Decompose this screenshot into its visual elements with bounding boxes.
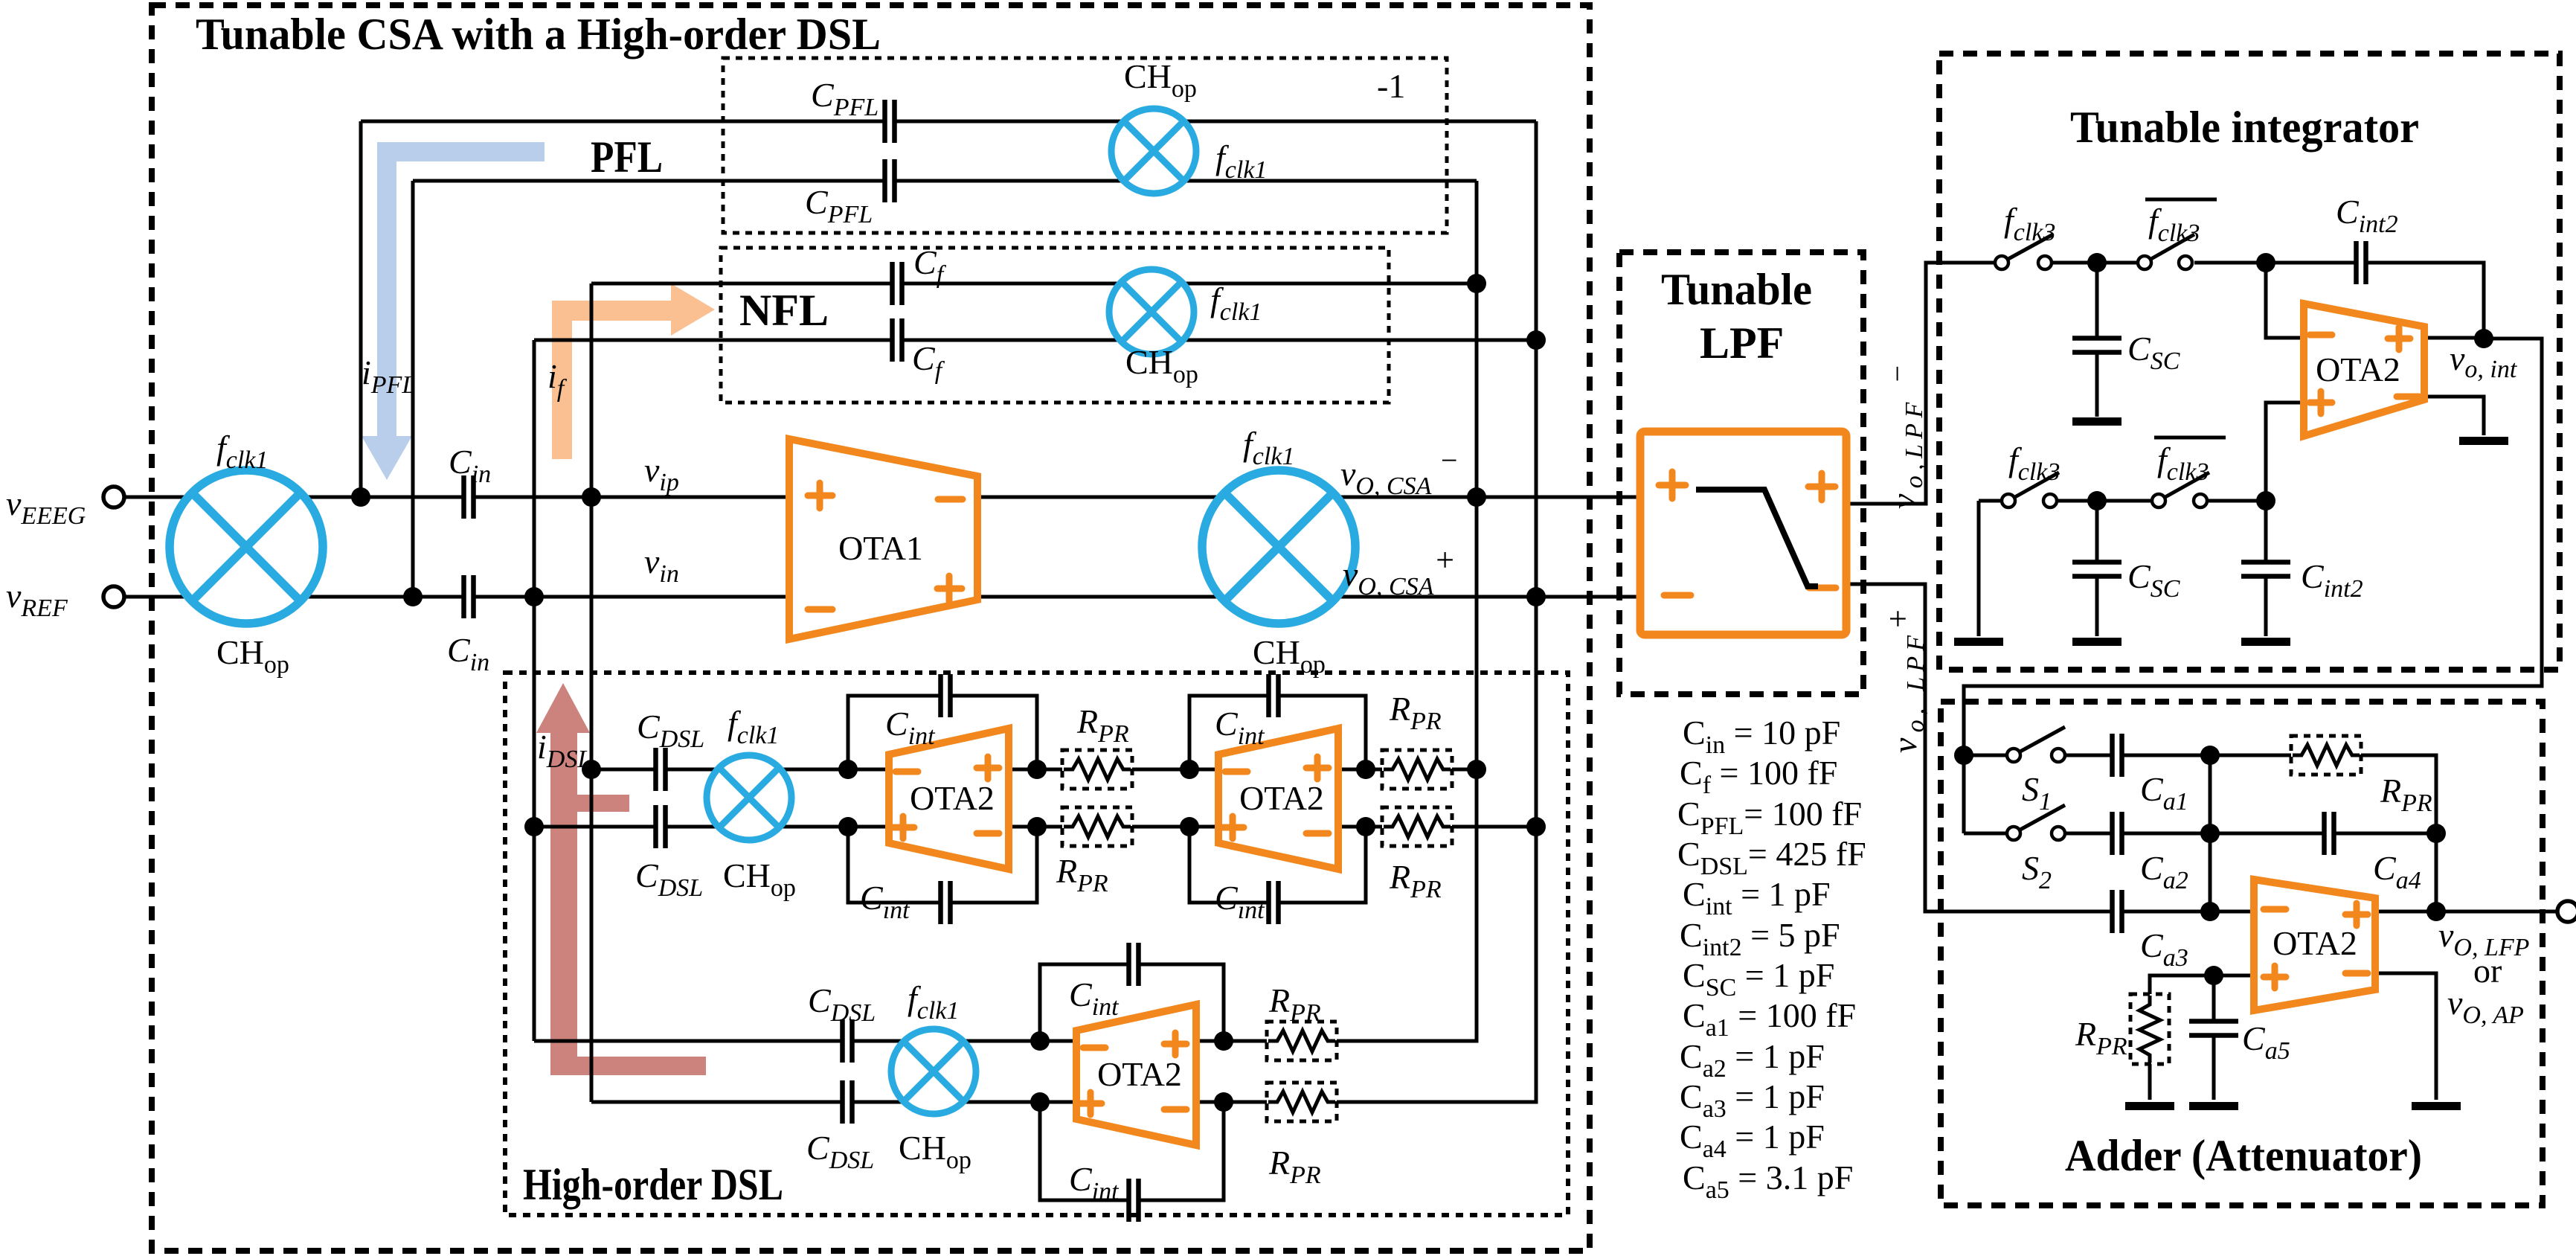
op-amp OTA2 adder bbox=[2254, 879, 2375, 1010]
ground: rail B left bbox=[1954, 638, 2003, 646]
svg-text:OTA2: OTA2 bbox=[2316, 350, 2400, 388]
capacitor Ca1 bbox=[2112, 734, 2122, 777]
chopper CHop DSL stage3 (fclk1) bbox=[891, 1029, 976, 1114]
dashed box RPR stage3 row3b bbox=[1267, 1083, 1337, 1121]
capacitor Ca2 bbox=[2112, 812, 2122, 855]
dashed box: Tunable LPF bbox=[1619, 252, 1863, 694]
wire: integrator OTA2 top input bbox=[2266, 263, 2304, 338]
wire: adder row2 bbox=[1964, 832, 2436, 836]
terminal vEEEG bbox=[103, 487, 124, 507]
capacitor CDSL row3b bbox=[842, 1080, 852, 1124]
junction dots on DSL row3 bbox=[1030, 1031, 1050, 1051]
wire: adder OTA2 minus output to ground bbox=[2375, 973, 2436, 1100]
Tunable LPF orange block bbox=[1640, 432, 1846, 635]
svg-text:High-order DSL: High-order DSL bbox=[523, 1160, 783, 1209]
iDSL current arrow (brick red) bbox=[536, 683, 706, 1075]
wire: vertical from vip node up to PFL top wire bbox=[359, 121, 363, 497]
label fclk3bar rail B bbox=[2154, 438, 2226, 486]
dashed box RPR stage1 row2 bbox=[1062, 807, 1132, 846]
dashed box RPR adder vertical bbox=[2130, 994, 2169, 1064]
ground: CSC bottom bbox=[2072, 638, 2121, 646]
resistor RPR stage1 row2 bbox=[1062, 815, 1132, 839]
wire: adder row1 after RPR to feedback corner bbox=[2361, 755, 2436, 911]
ground: RPR adder bbox=[2125, 1102, 2174, 1110]
dashed box RPR stage2 row1 bbox=[1382, 750, 1452, 789]
resistor RPR stage3 row3b bbox=[1267, 1090, 1337, 1114]
wire: PFL bottom branch bbox=[413, 179, 1477, 183]
svg-text:-1: -1 bbox=[1377, 67, 1405, 105]
wire: Cint loop stage3 top bbox=[1040, 964, 1224, 1041]
ground: Cint2 bottom bbox=[2241, 638, 2290, 646]
junction dots on DSL row2 bbox=[524, 817, 544, 836]
svg-text:Tunable: Tunable bbox=[1661, 265, 1812, 314]
svg-text:or: or bbox=[2473, 952, 2502, 990]
wire: integrator OTA2 bottom input bbox=[2266, 403, 2304, 501]
wire: vREF / vin net (bottom main rail) bbox=[124, 595, 1640, 599]
dashed box: High-order DSL bbox=[505, 673, 1568, 1215]
wire: integrator OTA2 bottom output to ground bbox=[2424, 397, 2484, 435]
wire: PFL top branch bbox=[361, 120, 1536, 124]
svg-text:OTA2: OTA2 bbox=[1097, 1055, 1182, 1093]
op-amp OTA2 DSL stage1 bbox=[889, 728, 1009, 869]
wire: DSL row3b bbox=[591, 1100, 1267, 1104]
dashed box RPR stage2 row2 bbox=[1382, 807, 1452, 846]
chopper CHop input (fclk1) bbox=[170, 470, 323, 624]
capacitor Cint stage1 bottom bbox=[940, 881, 951, 924]
wire: DSL row2 bbox=[534, 825, 1536, 829]
switch S2 bbox=[2007, 805, 2065, 843]
wire: integrator OTA2 output to vo,int node bbox=[2424, 336, 2484, 340]
wire: vertical NFL-bottom to vin to DSL row2 to DSL row3a bbox=[533, 340, 536, 1041]
capacitor Cf top bbox=[892, 262, 902, 305]
capacitor CDSL row2 bbox=[655, 805, 666, 848]
if current arrow (light orange) bbox=[552, 283, 715, 459]
chopper CHop NFL (fclk1) bbox=[1109, 269, 1194, 354]
svg-text:OTA2: OTA2 bbox=[1239, 779, 1324, 817]
resistor RPR stage2 row2 bbox=[1382, 815, 1452, 839]
switch S1 bbox=[2007, 727, 2065, 765]
wire: Cint loop stage3 bottom bbox=[1040, 1102, 1224, 1200]
wire: DSL row1 bbox=[591, 768, 1477, 772]
dashed box: Adder (Attenuator) bbox=[1941, 702, 2543, 1205]
capacitor Cint stage3 top bbox=[1128, 943, 1139, 986]
svg-text:NFL: NFL bbox=[739, 286, 829, 335]
wire: adder OTA2 plus input branch bbox=[2150, 975, 2254, 1100]
wire: LPF top output to integrator rail A bbox=[1846, 263, 2484, 504]
dashed box RPR stage1 row1 bbox=[1062, 750, 1132, 789]
terminal output vO,LFP bbox=[2557, 901, 2576, 922]
wire: NFL bottom branch bbox=[534, 339, 1536, 342]
svg-text:Tunable CSA with a High-order: Tunable CSA with a High-order DSL bbox=[196, 10, 881, 59]
dashed box RPR stage3 row3a bbox=[1267, 1022, 1337, 1060]
capacitor Cint2 bottom bbox=[2241, 562, 2290, 577]
svg-text:Adder (Attenuator): Adder (Attenuator) bbox=[2065, 1131, 2422, 1180]
op-amp OTA2 DSL stage3 bbox=[1076, 1005, 1196, 1145]
junction dots on vip net bbox=[351, 487, 370, 507]
iPFL current arrow (light blue) bbox=[362, 142, 545, 480]
op-amp OTA2 DSL stage2 bbox=[1218, 728, 1338, 869]
svg-text:OTA2: OTA2 bbox=[910, 779, 995, 817]
value list Cin..Ca5 bbox=[1677, 714, 1866, 1204]
capacitor Ca4 bbox=[2324, 812, 2334, 855]
resistor RPR stage1 row1 bbox=[1062, 757, 1132, 781]
chopper CHop DSL stage1 (fclk1) bbox=[707, 755, 791, 840]
wire: adder row1 bbox=[1964, 754, 2291, 757]
capacitor Ca3 bbox=[2112, 890, 2122, 933]
ground: CSC top bbox=[2072, 417, 2121, 426]
wire: rail B left leg to ground bbox=[1977, 501, 1981, 636]
wire: Cint loop stage2 bottom bbox=[1189, 827, 1366, 903]
wire: adder OTA2 output bbox=[2375, 910, 2559, 914]
switch fclk3 rail A left bbox=[1995, 234, 2053, 272]
capacitor Ca5 bbox=[2189, 1021, 2238, 1036]
wire: adder summing vertical Ca1/Ca2/Ca3 bbox=[2209, 755, 2212, 911]
switch fclk3 rail B left bbox=[2002, 472, 2059, 510]
dashed box: Tunable integrator bbox=[1939, 54, 2560, 670]
capacitor Cint stage1 top bbox=[940, 674, 951, 717]
wire: integrator bottom rail B bbox=[1979, 499, 2266, 503]
resistor RPR stage3 row3a bbox=[1267, 1029, 1337, 1053]
capacitor Cint stage3 bottom bbox=[1128, 1179, 1139, 1222]
wire: adder row2 vertical from node bbox=[1962, 755, 1966, 833]
label fclk3bar rail A bbox=[2145, 199, 2217, 247]
capacitor Cint2 top (on rail A) bbox=[2356, 241, 2366, 284]
op-amp OTA2 integrator bbox=[2304, 304, 2424, 436]
capacitor CSC top bbox=[2072, 338, 2121, 353]
wire: Cint loop stage1 top bbox=[848, 696, 1037, 769]
svg-text:OTA1: OTA1 bbox=[838, 529, 923, 567]
op-amp OTA1 bbox=[789, 439, 977, 639]
wire: CSC top branch bbox=[2095, 263, 2099, 417]
wire: DSL row3a bbox=[534, 1039, 1267, 1043]
capacitor Cf bottom bbox=[892, 318, 902, 362]
wire: Cint2 bottom branch bbox=[2264, 501, 2268, 636]
junction dots on DSL row1 bbox=[582, 760, 601, 779]
ground: adder minus output bbox=[2412, 1102, 2461, 1110]
switch fclk3bar rail A right bbox=[2138, 234, 2194, 272]
wire: vo,int feed down to adder input node bbox=[1964, 339, 2542, 755]
resistor RPR adder top bbox=[2291, 743, 2361, 767]
wire: vEEEG / vip net (top main rail) bbox=[124, 496, 1640, 499]
capacitor CDSL row1 bbox=[655, 748, 666, 791]
resistor RPR stage2 row1 bbox=[1382, 757, 1452, 781]
terminal vREF bbox=[103, 586, 124, 607]
capacitor Cin bottom bbox=[463, 575, 474, 618]
junction dots adder bbox=[1954, 746, 1973, 765]
resistor RPR adder vertical bbox=[2138, 994, 2162, 1064]
dashed box: Tunable CSA with High-order DSL (outer) bbox=[152, 5, 1590, 1251]
svg-text:OTA2: OTA2 bbox=[2273, 924, 2357, 962]
capacitor CPFL top bbox=[884, 100, 895, 143]
wire: right feedback vertical (PFL-bottom / NFL-top / vO,CSA- to DSL row3a) bbox=[1337, 181, 1477, 1041]
wire: vertical from vin node up to PFL bottom wire bbox=[411, 181, 415, 597]
dashed box RPR adder top bbox=[2291, 736, 2361, 775]
wire: CSC bottom branch bbox=[2095, 501, 2099, 636]
junction dots on vin net bbox=[403, 587, 423, 606]
capacitor CDSL row3a bbox=[842, 1019, 852, 1063]
dashed box: NFL bbox=[721, 248, 1389, 403]
capacitor Cint stage2 bottom bbox=[1268, 881, 1279, 924]
capacitor Cint stage2 top bbox=[1268, 674, 1279, 717]
capacitor CPFL bottom bbox=[884, 159, 895, 202]
dashed box: PFL bbox=[723, 58, 1447, 233]
ground: Ca5 bbox=[2189, 1102, 2238, 1110]
wire: NFL top branch bbox=[591, 282, 1477, 286]
wire: Cint loop stage1 bottom bbox=[848, 827, 1037, 903]
wire: LPF bottom output down to adder row3 bbox=[1846, 584, 2254, 911]
capacitor Cin top bbox=[463, 475, 474, 519]
svg-text:LPF: LPF bbox=[1700, 318, 1784, 368]
ground: integrator output bbox=[2459, 437, 2508, 445]
wire: vertical NFL-top to vip to DSL row1 to DSL row3b bbox=[590, 283, 594, 1102]
junction dots on NFL wires bbox=[1467, 274, 1486, 293]
junction dots integrator bbox=[2087, 253, 2107, 272]
chopper CHop CSA output (fclk1) bbox=[1202, 470, 1355, 624]
wire: Cint loop stage2 top bbox=[1189, 696, 1366, 769]
svg-text:PFL: PFL bbox=[591, 132, 663, 182]
wire: Ca5 branch bbox=[2212, 975, 2216, 1100]
chopper CHop PFL (fclk1) bbox=[1111, 109, 1196, 193]
svg-text:Tunable integrator: Tunable integrator bbox=[2070, 103, 2419, 152]
capacitor CSC bottom bbox=[2072, 562, 2121, 577]
switch fclk3bar rail B right bbox=[2152, 472, 2209, 510]
wire: right feedback vertical (PFL-top / NFL-bottom / vO,CSA+ to DSL row3b) bbox=[1337, 121, 1536, 1102]
